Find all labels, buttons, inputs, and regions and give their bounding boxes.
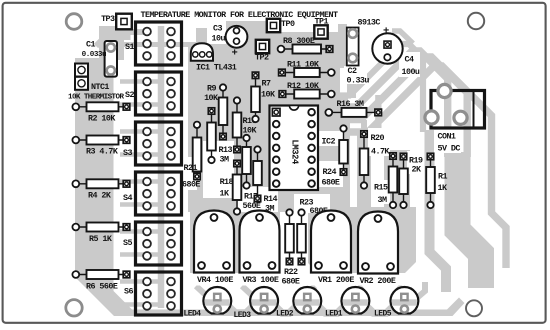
wire bottom VR region2: [308, 207, 416, 273]
mounting hole top-left: [66, 14, 82, 30]
resistor R22: [289, 213, 291, 262]
svg-text:R15: R15: [374, 183, 388, 193]
test point TP0: [267, 19, 280, 32]
svg-text:100u: 100u: [402, 67, 420, 77]
preset VR3: [240, 211, 280, 273]
svg-text:TEMPERATURE MONITOR FOR ELECTR: TEMPERATURE MONITOR FOR ELECTRONIC EQUIP…: [141, 10, 338, 20]
wire R15 R19 band: [384, 150, 410, 209]
svg-text:5V DC: 5V DC: [438, 144, 461, 154]
svg-text:R6 560E: R6 560E: [86, 282, 118, 292]
resistor R19: [403, 157, 405, 206]
svg-text:0.033u: 0.033u: [82, 51, 107, 59]
wire S1 cross: [144, 42, 196, 47]
wire right trace arm3: [340, 57, 467, 157]
svg-text:+: +: [232, 48, 238, 60]
svg-text:R11 10K: R11 10K: [287, 60, 320, 70]
svg-text:R4 2K: R4 2K: [88, 191, 112, 201]
svg-text:S1: S1: [125, 42, 134, 52]
resistor R6: [76, 274, 127, 276]
svg-text:S4: S4: [123, 193, 132, 203]
svg-text:TP0: TP0: [281, 19, 295, 29]
resistor R24: [343, 129, 345, 173]
capacitor C2: [347, 28, 359, 66]
svg-text:3M: 3M: [220, 155, 229, 165]
test point TP3: [116, 14, 132, 30]
svg-text:0.33u: 0.33u: [347, 76, 370, 86]
svg-text:C1: C1: [86, 40, 95, 50]
svg-text:VR2 200E: VR2 200E: [360, 276, 396, 286]
svg-text:VR4 100E: VR4 100E: [197, 275, 233, 285]
svg-text:10K THERMISTOR: 10K THERMISTOR: [68, 94, 124, 102]
wire R20 band: [357, 134, 371, 207]
svg-text:10u: 10u: [212, 34, 226, 44]
svg-text:LED4: LED4: [184, 310, 202, 319]
resistor R20: [363, 134, 365, 186]
switch connector S2: [136, 72, 182, 115]
wire center pour: [188, 44, 350, 212]
svg-text:R3 4.7K: R3 4.7K: [86, 147, 119, 157]
svg-text:1K: 1K: [220, 189, 230, 199]
wire IC1 top strip: [196, 28, 207, 46]
svg-text:LED1: LED1: [325, 310, 343, 319]
svg-text:680E: 680E: [182, 180, 200, 190]
svg-text:R7: R7: [262, 79, 271, 89]
wire left supply band: [75, 26, 203, 316]
resistor R11: [282, 72, 331, 74]
wire pour label gaps: [180, 157, 197, 190]
svg-text:LM324: LM324: [290, 140, 300, 166]
svg-text:NTC1: NTC1: [91, 82, 109, 92]
preset VR2: [358, 212, 398, 274]
wire right trace arm1: [340, 44, 423, 132]
svg-text:+: +: [383, 26, 389, 38]
svg-text:R18: R18: [220, 177, 234, 187]
svg-text:TP2: TP2: [255, 53, 269, 63]
svg-text:TP1: TP1: [315, 17, 329, 27]
test point TP1: [314, 25, 327, 38]
resistor R9: [222, 88, 224, 137]
wire led5 exit: [411, 282, 425, 303]
svg-text:R9: R9: [207, 84, 216, 94]
svg-text:S2: S2: [125, 90, 134, 100]
wire C1 to S1 row2: [106, 42, 147, 47]
resistor R2: [76, 106, 127, 108]
svg-text:IC2: IC2: [322, 137, 336, 147]
svg-text:10K: 10K: [243, 126, 258, 136]
svg-text:R2 10K: R2 10K: [88, 114, 116, 124]
svg-text:S6: S6: [124, 287, 133, 297]
mounting hole bottom-left: [66, 300, 82, 316]
switch connector S4: [136, 172, 182, 215]
svg-text:LED5: LED5: [374, 310, 392, 319]
capacitor C1: [105, 41, 117, 77]
resistor R14: [257, 150, 259, 199]
wire bottom VR region: [190, 207, 280, 273]
resistor R7: [255, 75, 257, 119]
svg-text:R1: R1: [438, 172, 447, 182]
svg-text:C3: C3: [213, 24, 222, 34]
wire center pour upper: [226, 21, 340, 104]
test point TP2: [256, 40, 269, 53]
svg-text:680E: 680E: [282, 277, 300, 287]
wire C4 top wrap: [392, 31, 413, 44]
LED2: [293, 287, 321, 313]
capacitor C4: [372, 33, 402, 63]
resistor R17: [246, 138, 248, 186]
svg-text:IC1 TL431: IC1 TL431: [196, 63, 237, 73]
preset VR1: [311, 211, 351, 273]
resistor R1: [430, 157, 432, 206]
resistor R16: [329, 111, 378, 113]
wire bottom strip: [203, 298, 465, 317]
wire led chevrons: [223, 302, 258, 314]
svg-text:R13: R13: [219, 145, 233, 155]
svg-text:TP3: TP3: [101, 14, 115, 24]
svg-text:10K: 10K: [204, 93, 219, 103]
resistor R8: [281, 48, 330, 50]
resistor R21: [196, 125, 198, 177]
wire C2 strip: [338, 24, 347, 68]
svg-text:R22: R22: [284, 267, 298, 277]
wire R16 vertical stub: [375, 95, 381, 133]
svg-text:3M: 3M: [378, 195, 387, 205]
capacitor C3: [226, 26, 248, 48]
wire right trace arm4: [340, 66, 506, 268]
svg-text:R8 300E: R8 300E: [283, 36, 315, 46]
svg-text:R16 3M: R16 3M: [337, 99, 364, 109]
resistor R5: [76, 226, 127, 228]
svg-text:2K: 2K: [412, 165, 422, 175]
svg-text:R24: R24: [323, 167, 337, 177]
svg-text:10K: 10K: [261, 90, 276, 100]
wire box stubs: [120, 79, 161, 84]
LED4: [203, 287, 231, 313]
resistor R13: [211, 111, 213, 160]
svg-text:8913C: 8913C: [358, 18, 381, 28]
connector CON1: [431, 91, 485, 129]
svg-text:4.7K: 4.7K: [371, 147, 390, 157]
resistor R18: [236, 164, 238, 212]
svg-text:S3: S3: [123, 148, 132, 158]
wire S column vertical: [158, 26, 165, 308]
svg-text:R5 1K: R5 1K: [89, 234, 113, 244]
LED3: [250, 287, 278, 313]
mounting hole top-right: [468, 13, 484, 29]
svg-text:680E: 680E: [322, 178, 340, 188]
svg-text:C2: C2: [348, 66, 357, 76]
svg-text:C4: C4: [405, 55, 414, 65]
svg-text:R14: R14: [264, 194, 278, 204]
thermistor NTC1: [75, 64, 88, 77]
svg-text:CON1: CON1: [438, 132, 456, 142]
op-amp IC2 LM324: [270, 106, 319, 191]
wire TP3 to S1 row1: [96, 32, 144, 46]
resistor R4: [76, 183, 127, 185]
wire vr to led stubs: [196, 286, 210, 299]
regulator IC1 TL431: [191, 43, 213, 61]
wire CON1 merge band: [458, 152, 482, 288]
svg-text:LED3: LED3: [234, 311, 252, 320]
resistor R10: [236, 101, 238, 150]
svg-text:R20: R20: [371, 133, 385, 143]
mounting hole bottom-right: [466, 300, 482, 316]
switch connector S5: [136, 222, 182, 265]
resistor R3: [76, 139, 127, 141]
LED5: [390, 287, 418, 313]
wire right trace arm2: [340, 51, 448, 157]
svg-text:LED2: LED2: [276, 310, 294, 319]
svg-text:1K: 1K: [438, 183, 448, 193]
svg-text:R12 10K: R12 10K: [287, 81, 320, 91]
resistor R12: [282, 93, 331, 95]
svg-text:S5: S5: [123, 238, 132, 248]
switch connector S6: [136, 272, 182, 315]
switch connector S1: [136, 22, 182, 65]
svg-text:VR1 200E: VR1 200E: [318, 275, 354, 285]
switch connector S3: [136, 122, 182, 165]
preset VR4: [194, 211, 234, 273]
resistor R23: [301, 213, 303, 262]
svg-text:VR3 100E: VR3 100E: [243, 275, 279, 285]
resistor R15: [392, 156, 394, 205]
LED1: [342, 287, 370, 313]
svg-text:R21: R21: [184, 163, 198, 173]
